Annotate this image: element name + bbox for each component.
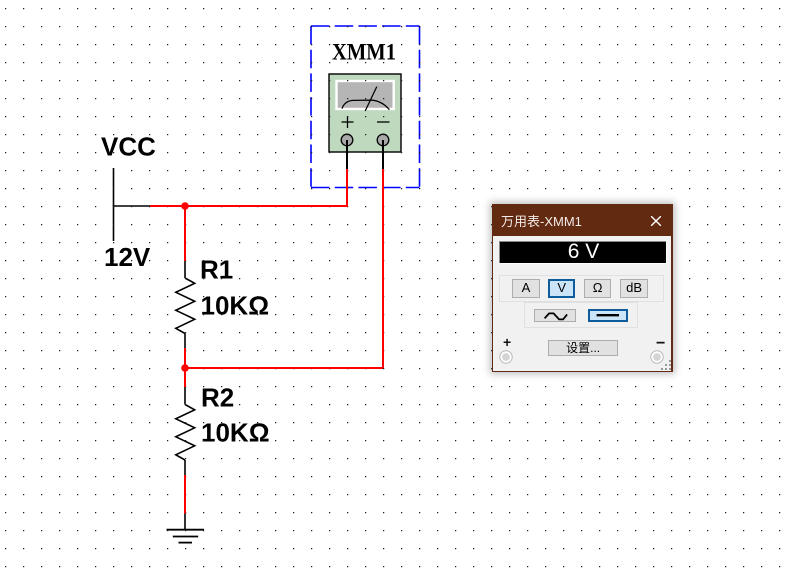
multimeter XMM1 terminal - — [377, 134, 389, 146]
resistor R1 — [176, 260, 195, 348]
wire R1 bottom pin to junction B — [184, 348, 186, 368]
minus jack — [650, 350, 664, 364]
selection box around XMM1 — [311, 26, 420, 188]
multimeter XMM1 terminal + — [341, 134, 353, 146]
button AC — [534, 309, 575, 322]
multimeter XMM1 body — [329, 74, 401, 152]
button V selected — [548, 279, 575, 298]
window title — [501, 211, 582, 230]
settings button 设置... — [548, 340, 619, 356]
wire junction B down to R2 top pin — [184, 368, 186, 387]
multimeter XMM1 needle — [365, 87, 377, 111]
wire multimeter + terminal stub — [346, 140, 348, 169]
mode group box — [499, 275, 664, 302]
wire junction B to multimeter - lead — [185, 367, 383, 369]
wire R2 bottom pin to ground — [184, 475, 186, 514]
signal group box — [524, 302, 637, 327]
button Ohm — [584, 279, 611, 298]
plus jack — [499, 350, 513, 364]
wire VCC bar to junction A to multimeter + lead — [150, 205, 348, 207]
multimeter panel window — [492, 204, 673, 373]
wire junction A down to R1 top pin — [184, 206, 186, 261]
button DC selected — [588, 309, 628, 322]
node junction A — [181, 202, 189, 210]
resistor R2 — [176, 387, 195, 476]
window close button — [650, 215, 662, 227]
plus terminal label — [503, 334, 511, 350]
button A — [512, 279, 540, 298]
multimeter XMM1 plus mark — [342, 116, 354, 128]
wire multimeter - terminal stub — [382, 140, 384, 169]
wire multimeter - red segment — [382, 169, 384, 368]
minus terminal label — [656, 335, 665, 353]
ground lead — [184, 513, 186, 530]
multimeter XMM1 minus mark — [377, 121, 390, 123]
node junction B — [181, 364, 189, 372]
ground symbol — [167, 530, 205, 543]
button dB — [620, 279, 648, 298]
multimeter XMM1 scale arc — [342, 100, 389, 110]
measurement display 6 V — [493, 236, 670, 268]
resize grip — [669, 360, 671, 362]
power VCC symbol stem — [113, 168, 115, 241]
multimeter XMM1 display — [337, 81, 394, 109]
power VCC symbol bar — [113, 205, 150, 207]
wire multimeter + red segment — [346, 169, 348, 207]
